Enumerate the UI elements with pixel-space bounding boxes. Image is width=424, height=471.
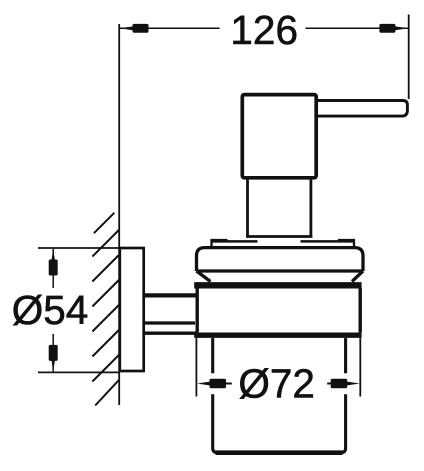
dimension O54 bottom extension line <box>38 371 120 373</box>
cap platform left tab <box>212 240 228 247</box>
wall line <box>118 24 120 405</box>
pump head <box>242 95 316 178</box>
pump neck <box>248 178 311 238</box>
cap platform line right segment <box>301 240 355 243</box>
dimension O54 top extension line <box>38 247 120 249</box>
dimension 126 right arrow <box>392 26 409 31</box>
glass container bottom edge <box>216 450 343 455</box>
dimension O72 right arrow tail <box>327 383 332 385</box>
glass container <box>213 338 346 453</box>
dimension O72 left arrow <box>197 381 214 386</box>
dimension O72 right arrow <box>343 381 360 386</box>
dimension O54 line top segment <box>52 249 54 288</box>
cap platform line left segment <box>212 240 258 243</box>
svg-text:Ø72: Ø72 <box>238 360 315 406</box>
dimension 126 line left segment <box>119 27 219 29</box>
svg-text:126: 126 <box>230 7 298 53</box>
holder arm <box>144 295 197 333</box>
mounting plate <box>120 248 144 371</box>
dimension O54 bottom arrow <box>51 356 56 371</box>
dimension O54 line bottom segment <box>52 334 54 371</box>
pump collar base line <box>246 235 312 238</box>
dimension O72 left arrow tail <box>225 383 232 385</box>
dimension 126 left arrow <box>119 26 136 31</box>
dimension O54 top arrow <box>51 249 56 264</box>
cap platform right tab <box>338 240 354 247</box>
wall hatching <box>92 213 119 406</box>
dimension O72 left extension line <box>195 338 197 397</box>
dimension 126 right extension line <box>408 15 410 100</box>
dimension O72 right extension line <box>359 338 361 397</box>
dimension 126 line right segment <box>306 27 409 29</box>
holder ring <box>194 285 361 335</box>
svg-text:Ø54: Ø54 <box>12 287 89 333</box>
pump spout <box>316 101 407 117</box>
dispenser cap <box>197 248 364 282</box>
